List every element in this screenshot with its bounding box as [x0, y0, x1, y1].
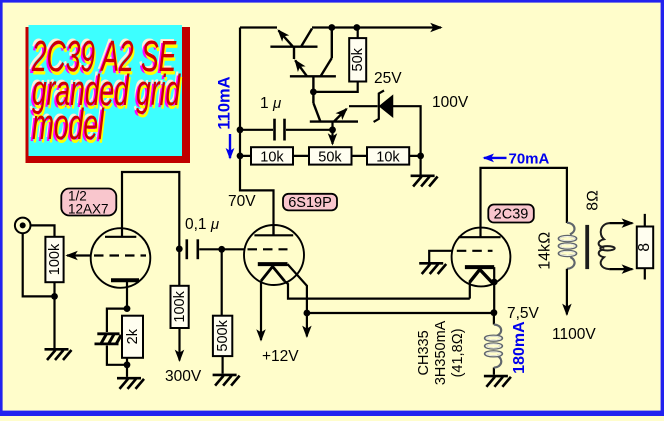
wire: cap 1u leads [240, 129, 333, 131]
svg-text:25V: 25V [374, 70, 402, 87]
V1 plate [105, 172, 179, 249]
node: rail/divider junction [237, 153, 244, 160]
resistor 10k (right) [367, 147, 409, 165]
svg-text:1 μ: 1 μ [260, 95, 281, 112]
wire: 2k bottom to ground [126, 358, 128, 377]
V1 cathode [111, 278, 139, 282]
node: Q2 collector on rail [328, 24, 335, 31]
wire: secondary bottom to load [609, 268, 632, 270]
label box 1/2 12AX7 [61, 189, 116, 217]
node: rail/cap junction [237, 126, 244, 133]
svg-text:1100V: 1100V [552, 326, 596, 343]
node: plate / coupling cap junction [176, 246, 183, 253]
node: cathode bottom junction [124, 361, 131, 368]
svg-text:8Ω: 8Ω [585, 190, 602, 211]
wire: cathode diagonal to node [288, 264, 307, 313]
svg-text:14kΩ: 14kΩ [537, 232, 554, 270]
svg-text:500k: 500k [215, 319, 231, 351]
node: Q3 base / wiper [329, 126, 336, 133]
wire: heater left leg to heater bus [469, 281, 471, 299]
resistor 500k (grid leak) [213, 249, 232, 373]
load resistor 8 ohm [636, 214, 653, 280]
node: input ground junction [51, 293, 58, 300]
wire: top rail left segment [240, 26, 277, 28]
zener diode 25V [374, 91, 421, 156]
wire: top rail to 100V arrow [312, 26, 441, 28]
node: 50k top on rail [353, 24, 360, 31]
V2 plate [254, 225, 293, 235]
triode V2 6S19P envelope [244, 225, 304, 285]
input jack [15, 218, 31, 234]
wire: cathode lead [126, 280, 128, 308]
transistor Q2 [290, 28, 336, 92]
wire: cathode bus to 2C39 [307, 312, 494, 314]
node: 7,5V node [491, 309, 498, 316]
potentiometer 50k [309, 147, 352, 165]
svg-text:100k: 100k [47, 243, 63, 275]
capacitor 1u [275, 119, 285, 141]
node: Q2 base / 50k bottom [310, 89, 317, 96]
svg-text:+12V: +12V [262, 348, 299, 365]
title text "2C39 A2 SE granded grid model" [29, 29, 183, 152]
wire: primary bottom to 1100V arrow [566, 269, 568, 315]
wire: Q3 base to pot wiper arrow [331, 122, 333, 130]
svg-text:(41,8Ω): (41,8Ω) [450, 328, 466, 377]
svg-text:70V: 70V [228, 193, 256, 210]
svg-text:50k: 50k [350, 47, 366, 71]
ground (cathode) [117, 378, 144, 389]
resistor 100k (grid) [45, 237, 63, 282]
current arrow 70mA (blue) [484, 157, 507, 159]
wire: secondary top to load [609, 222, 632, 224]
ground (zener divider) [411, 156, 438, 187]
label box 6S19P [283, 194, 337, 211]
wire: bypass cap branch [107, 309, 127, 365]
ground (V3 grid) [419, 263, 446, 274]
node: grid / 500k junction [218, 246, 225, 253]
V3 grid (dashed) [457, 250, 493, 252]
svg-text:0,1 μ: 0,1 μ [185, 216, 219, 233]
svg-text:CH335: CH335 [416, 330, 432, 375]
svg-text:8: 8 [636, 243, 653, 252]
transformer T1 secondary winding [599, 223, 615, 269]
svg-text:100V: 100V [432, 94, 469, 111]
V2 heater filament [261, 267, 285, 282]
svg-text:10k: 10k [376, 150, 400, 166]
svg-text:2C39: 2C39 [494, 207, 529, 223]
resistor 10k (left) [251, 147, 293, 165]
V3 plate [458, 168, 567, 237]
wire: resistor row links [240, 155, 421, 157]
current arrow 110mA [229, 134, 231, 158]
V2 cathode [258, 262, 288, 266]
transistor Q1 [270, 29, 317, 60]
title box red shadow [26, 27, 191, 163]
grid arrow into 100k [67, 254, 91, 256]
svg-text:300V: 300V [165, 368, 202, 385]
V3 cathode [465, 265, 494, 269]
V3 heater filament [470, 270, 493, 284]
svg-text:model: model [32, 99, 105, 149]
svg-text:6S19P: 6S19P [288, 195, 332, 211]
svg-text:2k: 2k [125, 328, 141, 344]
capacitor 0,1u coupling [187, 239, 198, 259]
ground (500k) [213, 375, 240, 386]
svg-text:70mA: 70mA [509, 151, 550, 168]
node: heater/cathode tie [491, 279, 498, 286]
wire: grid to ground [429, 251, 452, 262]
label CH335 3H350mA (41,8 ohm) [416, 320, 466, 385]
svg-text:50k: 50k [318, 150, 342, 166]
wire: jack sleeve to ground bus [23, 233, 55, 296]
V2 grid (dashed) [248, 248, 288, 250]
svg-text:7,5V: 7,5V [507, 305, 540, 322]
wire: cap to 6S19P grid [199, 248, 244, 250]
svg-text:10k: 10k [260, 150, 284, 166]
triode V3 2C39 envelope [452, 228, 511, 287]
V1 grid (dashed) [94, 254, 146, 256]
capacitor (cathode bypass, hatched plates) [95, 333, 122, 344]
arrow: cathode bias to +12V [306, 313, 308, 336]
svg-text:12AX7: 12AX7 [68, 202, 109, 217]
resistor 2k (cathode) [122, 316, 143, 358]
node: V2 cathode junction [304, 310, 311, 317]
choke CH335 coil [493, 313, 495, 375]
wire: 100k bottom to ground [53, 282, 55, 348]
wire: jack to grid resistor [31, 225, 55, 236]
ground (choke) [484, 376, 511, 387]
ground (input) [45, 349, 72, 360]
transformer T1 core [585, 225, 589, 269]
wire: cathode to node [493, 267, 495, 313]
svg-text:180mA: 180mA [511, 321, 528, 374]
title box cyan panel [29, 25, 183, 156]
wire: left supply rail vertical [240, 28, 274, 237]
transformer T1 primary winding [559, 223, 577, 269]
resistor 50k (collector load) [313, 28, 366, 92]
resistor 100k (to 300V) [171, 249, 189, 361]
wire: Q3 emitter to zener [349, 105, 378, 107]
svg-text:110mA: 110mA [216, 76, 234, 129]
svg-text:100k: 100k [172, 290, 188, 322]
node: cathode top junction [124, 305, 131, 312]
node: zener anode / divider right [417, 153, 424, 160]
wire: heater right leg to heater bus [285, 281, 470, 299]
triode V1 12AX7 envelope [91, 228, 151, 288]
transistor Q3 [310, 92, 358, 122]
label box 2C39 [488, 205, 534, 223]
wire: heater left leg to +12V arrow [260, 281, 262, 340]
svg-text:3H350mA: 3H350mA [433, 320, 449, 385]
